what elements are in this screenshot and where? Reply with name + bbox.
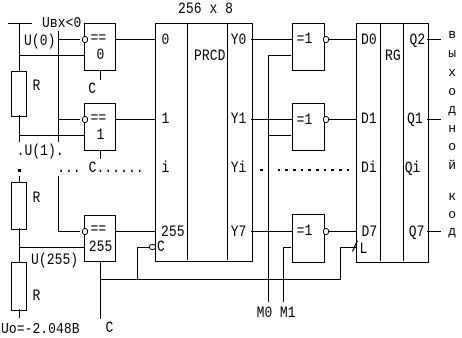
resistor R (middle): [11, 182, 27, 230]
label C comp0: [88, 81, 96, 97]
label output-word letter х: [448, 66, 456, 79]
wire xor bottom out to D7: [329, 231, 356, 232]
label code-word letter к: [448, 190, 456, 203]
dot row i 1: [285, 169, 288, 172]
dot row i 2: [293, 169, 296, 172]
RG pin D0: [361, 32, 377, 48]
wire clock into RG L: [340, 247, 356, 248]
wire comp0 C stub: [100, 71, 101, 80]
label code-word letter о: [448, 208, 456, 221]
wire R2 to tap U(255): [19, 228, 20, 262]
label =1 mid: [297, 112, 313, 128]
resistor R (bottom): [11, 262, 27, 311]
dot row i 4: [308, 169, 311, 172]
PRCD pin Yi: [231, 160, 247, 176]
wire R1 to tap U(0) and U(1): [19, 115, 20, 142]
wire Y7 to xor7: [251, 231, 292, 232]
dot row i 9: [347, 169, 350, 172]
wire top rail: [8, 23, 32, 24]
wire Uvx bus upper: [58, 31, 59, 142]
label .U(1).: [17, 143, 64, 159]
label output-word letter о: [448, 85, 456, 98]
wire xor mid out to D1: [329, 119, 356, 120]
wire R3 to Uo: [19, 309, 20, 318]
wire M1 bus: [283, 247, 284, 302]
label R bottom: [33, 288, 41, 304]
dot row i 8: [339, 169, 342, 172]
PRCD pin 255: [161, 224, 185, 240]
PRCD pin C: [157, 239, 165, 255]
label =1 bottom: [297, 223, 313, 239]
wire comp1 C stub: [100, 151, 101, 159]
RG pin D7: [362, 224, 378, 240]
RG pin L: [360, 241, 368, 257]
label C clock bottom: [106, 320, 114, 336]
label output-word letter в: [448, 28, 456, 41]
PRCD pin i: [162, 160, 170, 176]
comp1 inverting input bubble: [82, 116, 88, 122]
wire Q2 out: [427, 39, 441, 40]
wire chain resume: [19, 176, 20, 182]
PRCD divider left: [187, 23, 188, 260]
label 256 x 8: [178, 1, 233, 17]
wire rail to R1: [19, 23, 20, 71]
dot row i 0: [278, 169, 281, 172]
RG pin Q7: [409, 224, 425, 240]
label 1 comp1: [97, 127, 105, 143]
label output-word letter о: [448, 140, 456, 153]
dotted chain continuation: [18, 169, 21, 172]
xor top output bubble: [323, 36, 329, 42]
resistor R (top): [11, 71, 27, 117]
xor gate mid =1: [292, 103, 325, 151]
label output-word letter н: [448, 122, 456, 135]
RG pin D1: [361, 111, 377, 127]
wire Uvx to comp0 bubble: [58, 39, 80, 40]
PRCD pin 1: [162, 111, 170, 127]
label code-word letter д: [448, 225, 456, 238]
PRCD pin Y1: [231, 111, 247, 127]
PRCD divider right: [227, 23, 228, 260]
label R middle: [33, 190, 41, 206]
label PRCD: [194, 48, 225, 64]
PRCD pin Y7: [231, 224, 247, 240]
wire Q1 out: [427, 119, 441, 120]
RG pin Q1: [407, 111, 423, 127]
wire comp255 C stub to clock: [100, 262, 101, 319]
wire PRCD C down to clock bus: [137, 247, 138, 280]
xor gate bottom =1: [292, 214, 325, 263]
label == comp0: [91, 30, 107, 46]
PRCD pin 0: [162, 32, 170, 48]
wire M0 to xor top in2: [268, 55, 292, 56]
RG pin Qi: [405, 160, 421, 176]
wire Y0 to xor0: [251, 39, 292, 40]
label U(255): [31, 252, 78, 268]
comp255 inverting input bubble: [82, 228, 88, 234]
wire tap U(0): [19, 55, 84, 56]
wire Q7 out: [427, 231, 441, 232]
label M0: [257, 305, 273, 321]
label RG: [385, 48, 401, 64]
label M1: [280, 305, 296, 321]
register RG: [356, 23, 429, 263]
wire M1 to xor bottom in2: [283, 247, 292, 248]
PRCD pin Y0: [231, 32, 247, 48]
comparator 255: [84, 215, 116, 262]
wire xor top out to D0: [329, 39, 356, 40]
xor gate top =1: [292, 23, 325, 71]
label output-word letter д: [448, 103, 456, 116]
RG pin Di: [361, 160, 377, 176]
xor bottom output bubble: [323, 228, 329, 234]
wire M0 bus: [268, 55, 269, 302]
wire tap U(255): [19, 247, 84, 248]
comp0 inverting input bubble: [82, 36, 88, 42]
RG divider right: [403, 23, 404, 261]
label output-word letter й: [448, 159, 456, 172]
RG dynamic input slash: [351, 239, 360, 253]
wire clock bus horizontal: [100, 279, 340, 280]
wire Uvx bus lower: [58, 176, 59, 232]
wire tap U(1): [19, 135, 84, 136]
PRCD C input bubble: [149, 244, 155, 250]
label 0 comp0: [97, 47, 105, 63]
dot row i a: [260, 169, 263, 172]
priority encoder PRCD: [155, 23, 253, 262]
wire comp1 out: [115, 119, 155, 120]
label Uvx<0: [42, 16, 81, 30]
wire Uvx to comp1 bubble: [58, 119, 80, 120]
wire M0 to xor mid in2: [268, 135, 292, 136]
label == comp255: [91, 221, 107, 237]
label output-word letter ы: [448, 47, 456, 60]
wire to PRCD C bubble: [137, 247, 150, 248]
wire Y1 to xor1: [251, 119, 292, 120]
label =1 top: [297, 31, 313, 47]
dot row i 6: [324, 169, 327, 172]
dot row i 3: [301, 169, 304, 172]
xor mid output bubble: [323, 116, 329, 122]
wire Uvx to comp255 bubble: [58, 231, 80, 232]
label R top: [33, 78, 41, 94]
wire clock riser to RG: [340, 247, 341, 280]
dot row i 5: [316, 169, 319, 172]
label ... C...... row: [57, 160, 143, 176]
dot row i 7: [331, 169, 334, 172]
RG pin Q2: [410, 32, 426, 48]
label 255 comp255: [89, 239, 113, 255]
label Uo=-2.048V: [1, 322, 80, 336]
label U(0): [24, 33, 55, 49]
comparator 1: [84, 103, 116, 151]
RG divider left: [380, 23, 381, 261]
comparator 0: [84, 23, 116, 71]
wire comp255 out: [115, 231, 155, 232]
label == comp1: [91, 110, 107, 126]
wire comp0 out: [115, 39, 155, 40]
